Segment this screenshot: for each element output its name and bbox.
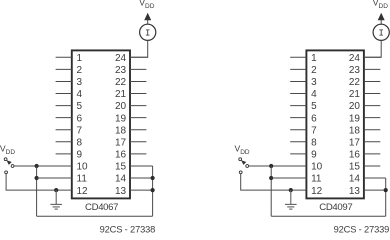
U2 pin 8 stub xyxy=(290,141,306,143)
svg-text:16: 16 xyxy=(115,150,127,161)
U1 pin 13 stub xyxy=(130,189,153,191)
svg-text:5: 5 xyxy=(311,101,317,112)
svg-text:8: 8 xyxy=(311,137,317,148)
switch S (U1) VDD throw terminal xyxy=(4,158,7,161)
svg-text:12: 12 xyxy=(311,186,323,197)
svg-text:CD4067: CD4067 xyxy=(85,202,118,213)
wire junction to pin 11 (U1) xyxy=(37,177,72,179)
U2 pin 24 stub xyxy=(364,56,381,58)
wire right tie vertical (U1) xyxy=(152,166,154,216)
wire right tie vertical (U2) xyxy=(385,178,387,216)
U1 pin 17 stub xyxy=(130,141,146,143)
svg-text:92CS - 27338: 92CS - 27338 xyxy=(100,224,156,234)
U1 pin 23 stub xyxy=(130,68,146,70)
switch S (U1) common terminal xyxy=(11,165,14,168)
node junction pin10 wire (U2) xyxy=(269,164,273,168)
svg-text:16: 16 xyxy=(349,150,361,161)
U1 pin 16 stub xyxy=(130,153,146,155)
svg-text:20: 20 xyxy=(115,101,127,112)
U1 pin 22 stub xyxy=(130,80,146,82)
svg-text:24: 24 xyxy=(115,53,127,64)
U2 pin 14 stub xyxy=(364,177,386,179)
U1 pin 14 stub xyxy=(130,177,153,179)
U2 pin 2 stub xyxy=(290,68,306,70)
svg-text:CD4097: CD4097 xyxy=(319,202,352,213)
U2 pin 17 stub xyxy=(364,141,380,143)
wire switch common to pin 10 (U1) xyxy=(14,165,72,167)
svg-text:15: 15 xyxy=(115,162,127,173)
svg-text:21: 21 xyxy=(115,89,127,100)
node junction ground (U2) xyxy=(289,188,293,192)
svg-text:11: 11 xyxy=(311,174,322,185)
svg-text:15: 15 xyxy=(349,162,361,173)
U2 pin 3 stub xyxy=(290,80,306,82)
U1 pin 2 stub xyxy=(56,68,72,70)
U2 pin 15 stub xyxy=(364,165,380,167)
wire switch lower throw to pin 12 / ground (U1) xyxy=(6,174,72,190)
U2 pin 9 stub xyxy=(290,153,306,155)
svg-text:24: 24 xyxy=(349,53,361,64)
ground symbol (U1) xyxy=(50,190,62,209)
U1 pin 21 stub xyxy=(130,93,146,95)
svg-text:13: 13 xyxy=(115,186,127,197)
U1 pin 15 stub xyxy=(130,165,153,167)
U1 pin 7 stub xyxy=(56,129,72,131)
switch S (U1) lower throw terminal xyxy=(5,171,8,174)
svg-text:3: 3 xyxy=(77,77,83,88)
svg-text:10: 10 xyxy=(77,162,89,173)
svg-text:8: 8 xyxy=(77,137,83,148)
svg-text:23: 23 xyxy=(115,65,127,76)
U1 pin 20 stub xyxy=(130,105,146,107)
U1 pin 5 stub xyxy=(56,105,72,107)
svg-text:2: 2 xyxy=(311,65,317,76)
wire junction down to bottom bus (U2) xyxy=(270,166,272,216)
svg-text:6: 6 xyxy=(311,113,317,124)
U1 pin 1 stub xyxy=(56,56,72,58)
svg-text:21: 21 xyxy=(349,89,361,100)
U2 pin 18 stub xyxy=(364,129,380,131)
svg-text:7: 7 xyxy=(311,125,317,136)
svg-text:22: 22 xyxy=(349,77,361,88)
U2 pin 21 stub xyxy=(364,93,380,95)
svg-text:3: 3 xyxy=(311,77,317,88)
svg-text:I: I xyxy=(378,28,383,38)
IC U1 body outline xyxy=(72,50,130,198)
U1 pin 4 stub xyxy=(56,93,72,95)
U2 pin 4 stub xyxy=(290,93,306,95)
ground symbol (U2) xyxy=(285,190,297,209)
U1 pin 6 stub xyxy=(56,117,72,119)
IC U2 body outline xyxy=(306,50,364,198)
wire bottom bus to right tie (U1) xyxy=(37,215,153,217)
U1 pin 3 stub xyxy=(56,80,72,82)
U2 pin 19 stub xyxy=(364,117,380,119)
svg-text:VDD: VDD xyxy=(235,143,250,156)
svg-text:5: 5 xyxy=(77,101,83,112)
switch S (U1) wiper arrow xyxy=(6,160,11,165)
VDD arrow (top, U1) xyxy=(144,13,151,20)
U1 pin 18 stub xyxy=(130,129,146,131)
svg-text:18: 18 xyxy=(115,125,127,136)
svg-text:VDD: VDD xyxy=(373,0,388,10)
U2 pin 22 stub xyxy=(364,80,380,82)
wire switch lower throw to pin 12 / ground (U2) xyxy=(241,174,307,190)
svg-text:2: 2 xyxy=(77,65,83,76)
svg-text:4: 4 xyxy=(311,89,317,100)
svg-text:20: 20 xyxy=(349,101,361,112)
wire arrow to current source (U1) xyxy=(147,20,149,25)
node junction pin11 wire (U1) xyxy=(35,176,39,180)
svg-text:17: 17 xyxy=(115,137,127,148)
svg-text:14: 14 xyxy=(115,174,127,185)
U2 pin 1 stub xyxy=(290,56,306,58)
current source I (U1) xyxy=(140,24,156,40)
node junction pin 13 tie (U1) xyxy=(151,188,155,192)
svg-text:1: 1 xyxy=(77,53,83,64)
svg-text:23: 23 xyxy=(349,65,361,76)
U1 pin 8 stub xyxy=(56,141,72,143)
U2 pin 7 stub xyxy=(290,129,306,131)
switch S (U2) common terminal xyxy=(246,165,249,168)
svg-text:22: 22 xyxy=(115,77,127,88)
svg-text:14: 14 xyxy=(349,174,361,185)
svg-text:9: 9 xyxy=(77,150,83,161)
U2 pin 20 stub xyxy=(364,105,380,107)
node junction ground (U1) xyxy=(54,188,58,192)
U2 pin 23 stub xyxy=(364,68,380,70)
svg-text:6: 6 xyxy=(77,113,83,124)
wire current source to pin 24 (U1) xyxy=(130,40,148,57)
wire junction to pin 11 (U2) xyxy=(271,177,306,179)
current source I (U2) xyxy=(373,24,389,40)
svg-text:92CS - 27339: 92CS - 27339 xyxy=(334,224,390,234)
svg-text:10: 10 xyxy=(311,162,323,173)
VDD arrow (top, U2) xyxy=(378,13,385,20)
wire junction down to bottom bus (U1) xyxy=(36,166,38,216)
wire switch common to pin 10 (U2) xyxy=(249,165,307,167)
svg-text:19: 19 xyxy=(349,113,361,124)
node junction pin 13 tie (U2) xyxy=(384,188,388,192)
svg-text:19: 19 xyxy=(115,113,127,124)
svg-text:I: I xyxy=(145,28,150,38)
switch S (U2) lower throw terminal xyxy=(239,171,242,174)
switch S (U2) wiper arrow xyxy=(241,160,246,165)
U1 pin 9 stub xyxy=(56,153,72,155)
svg-text:VDD: VDD xyxy=(139,0,154,10)
svg-text:1: 1 xyxy=(311,53,317,64)
U1 pin 24 stub xyxy=(130,56,148,58)
svg-text:4: 4 xyxy=(77,89,83,100)
node junction pin10 wire (U1) xyxy=(35,164,39,168)
U2 pin 5 stub xyxy=(290,105,306,107)
node junction pin 14 tie (U1) xyxy=(151,176,155,180)
svg-text:9: 9 xyxy=(311,150,317,161)
node junction pin11 wire (U2) xyxy=(269,176,273,180)
wire bottom bus to right tie (U2) xyxy=(271,215,386,217)
svg-text:18: 18 xyxy=(349,125,361,136)
svg-text:11: 11 xyxy=(77,174,88,185)
U2 pin 16 stub xyxy=(364,153,380,155)
switch S (U2) VDD throw terminal xyxy=(239,158,242,161)
U1 pin 19 stub xyxy=(130,117,146,119)
svg-text:13: 13 xyxy=(349,186,361,197)
svg-text:17: 17 xyxy=(349,137,361,148)
wire current source to pin 24 (U2) xyxy=(364,40,381,57)
svg-text:VDD: VDD xyxy=(0,143,15,156)
svg-text:12: 12 xyxy=(77,186,89,197)
svg-text:7: 7 xyxy=(77,125,83,136)
U2 pin 6 stub xyxy=(290,117,306,119)
wire arrow to current source (U2) xyxy=(380,20,382,25)
U2 pin 13 stub xyxy=(364,189,386,191)
